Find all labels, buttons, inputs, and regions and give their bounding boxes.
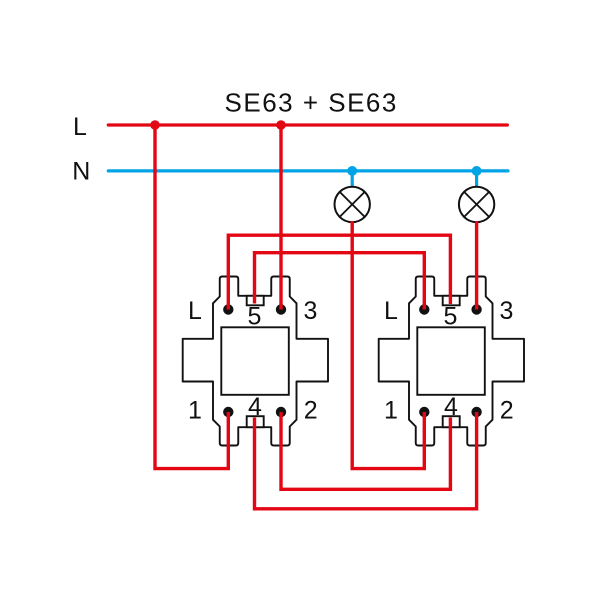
wire blue stub lamp E1 xyxy=(351,171,354,188)
switch S2 terminal-5 notch xyxy=(443,296,460,306)
svg-text:N: N xyxy=(72,157,90,185)
switch S1 terminal 3 pin xyxy=(276,304,286,314)
switch S2 terminal 1 pin xyxy=(419,407,429,417)
node L junction 1 xyxy=(150,120,160,130)
switch S2 terminal 2 pin xyxy=(471,407,481,417)
svg-text:2: 2 xyxy=(500,396,514,424)
wire lamp E1 to S2 terminal 1 xyxy=(352,221,424,469)
lamp E1 xyxy=(335,187,370,222)
svg-text:5: 5 xyxy=(248,302,262,330)
wire L to S1 terminal 3 xyxy=(279,125,282,310)
node N junction 1 xyxy=(347,166,357,176)
svg-text:4: 4 xyxy=(248,393,262,421)
svg-text:SE63 + SE63: SE63 + SE63 xyxy=(225,87,398,117)
wire S1 terminal 2 to S2 terminal 4 xyxy=(281,412,450,489)
wire blue stub lamp E2 xyxy=(475,171,478,188)
wire S1 terminal L to S2 terminal 5 xyxy=(228,235,450,309)
wire N line xyxy=(108,169,508,172)
switch S1 terminal 2 pin xyxy=(276,407,286,417)
svg-text:5: 5 xyxy=(444,302,458,330)
svg-text:1: 1 xyxy=(188,396,202,424)
node L junction 2 xyxy=(276,120,286,130)
wire L line xyxy=(108,123,507,126)
wire S1 terminal 5 to S2 terminal L xyxy=(255,253,425,310)
wire L to S1 terminal 1 xyxy=(155,125,228,469)
switch S2 body outline xyxy=(379,277,524,446)
svg-text:L: L xyxy=(73,113,87,141)
wire S1 terminal 4 to S2 terminal 2 xyxy=(255,412,477,509)
svg-text:1: 1 xyxy=(384,396,398,424)
switch S1 inner square xyxy=(221,327,288,395)
switch S2 inner square xyxy=(417,327,485,395)
switch S1 terminal-4 notch xyxy=(247,416,264,427)
switch S2 terminal-4 notch xyxy=(443,416,460,427)
switch S1 terminal-5 notch xyxy=(247,296,264,306)
svg-text:L: L xyxy=(384,297,398,325)
lamp E2 xyxy=(459,187,494,222)
svg-text:L: L xyxy=(188,297,202,325)
switch S2 terminal 3 pin xyxy=(471,304,481,314)
switch S1 terminal 1 pin xyxy=(223,407,233,417)
wire lamp E2 to S2 terminal 3 xyxy=(475,221,478,310)
svg-text:3: 3 xyxy=(303,297,317,325)
svg-text:3: 3 xyxy=(499,297,513,325)
switch S1 terminal L pin xyxy=(223,304,233,314)
svg-text:4: 4 xyxy=(444,393,458,421)
svg-text:2: 2 xyxy=(304,396,318,424)
switch S1 body outline xyxy=(183,277,328,446)
switch S2 terminal L pin xyxy=(419,304,429,314)
node N junction 2 xyxy=(472,166,482,176)
